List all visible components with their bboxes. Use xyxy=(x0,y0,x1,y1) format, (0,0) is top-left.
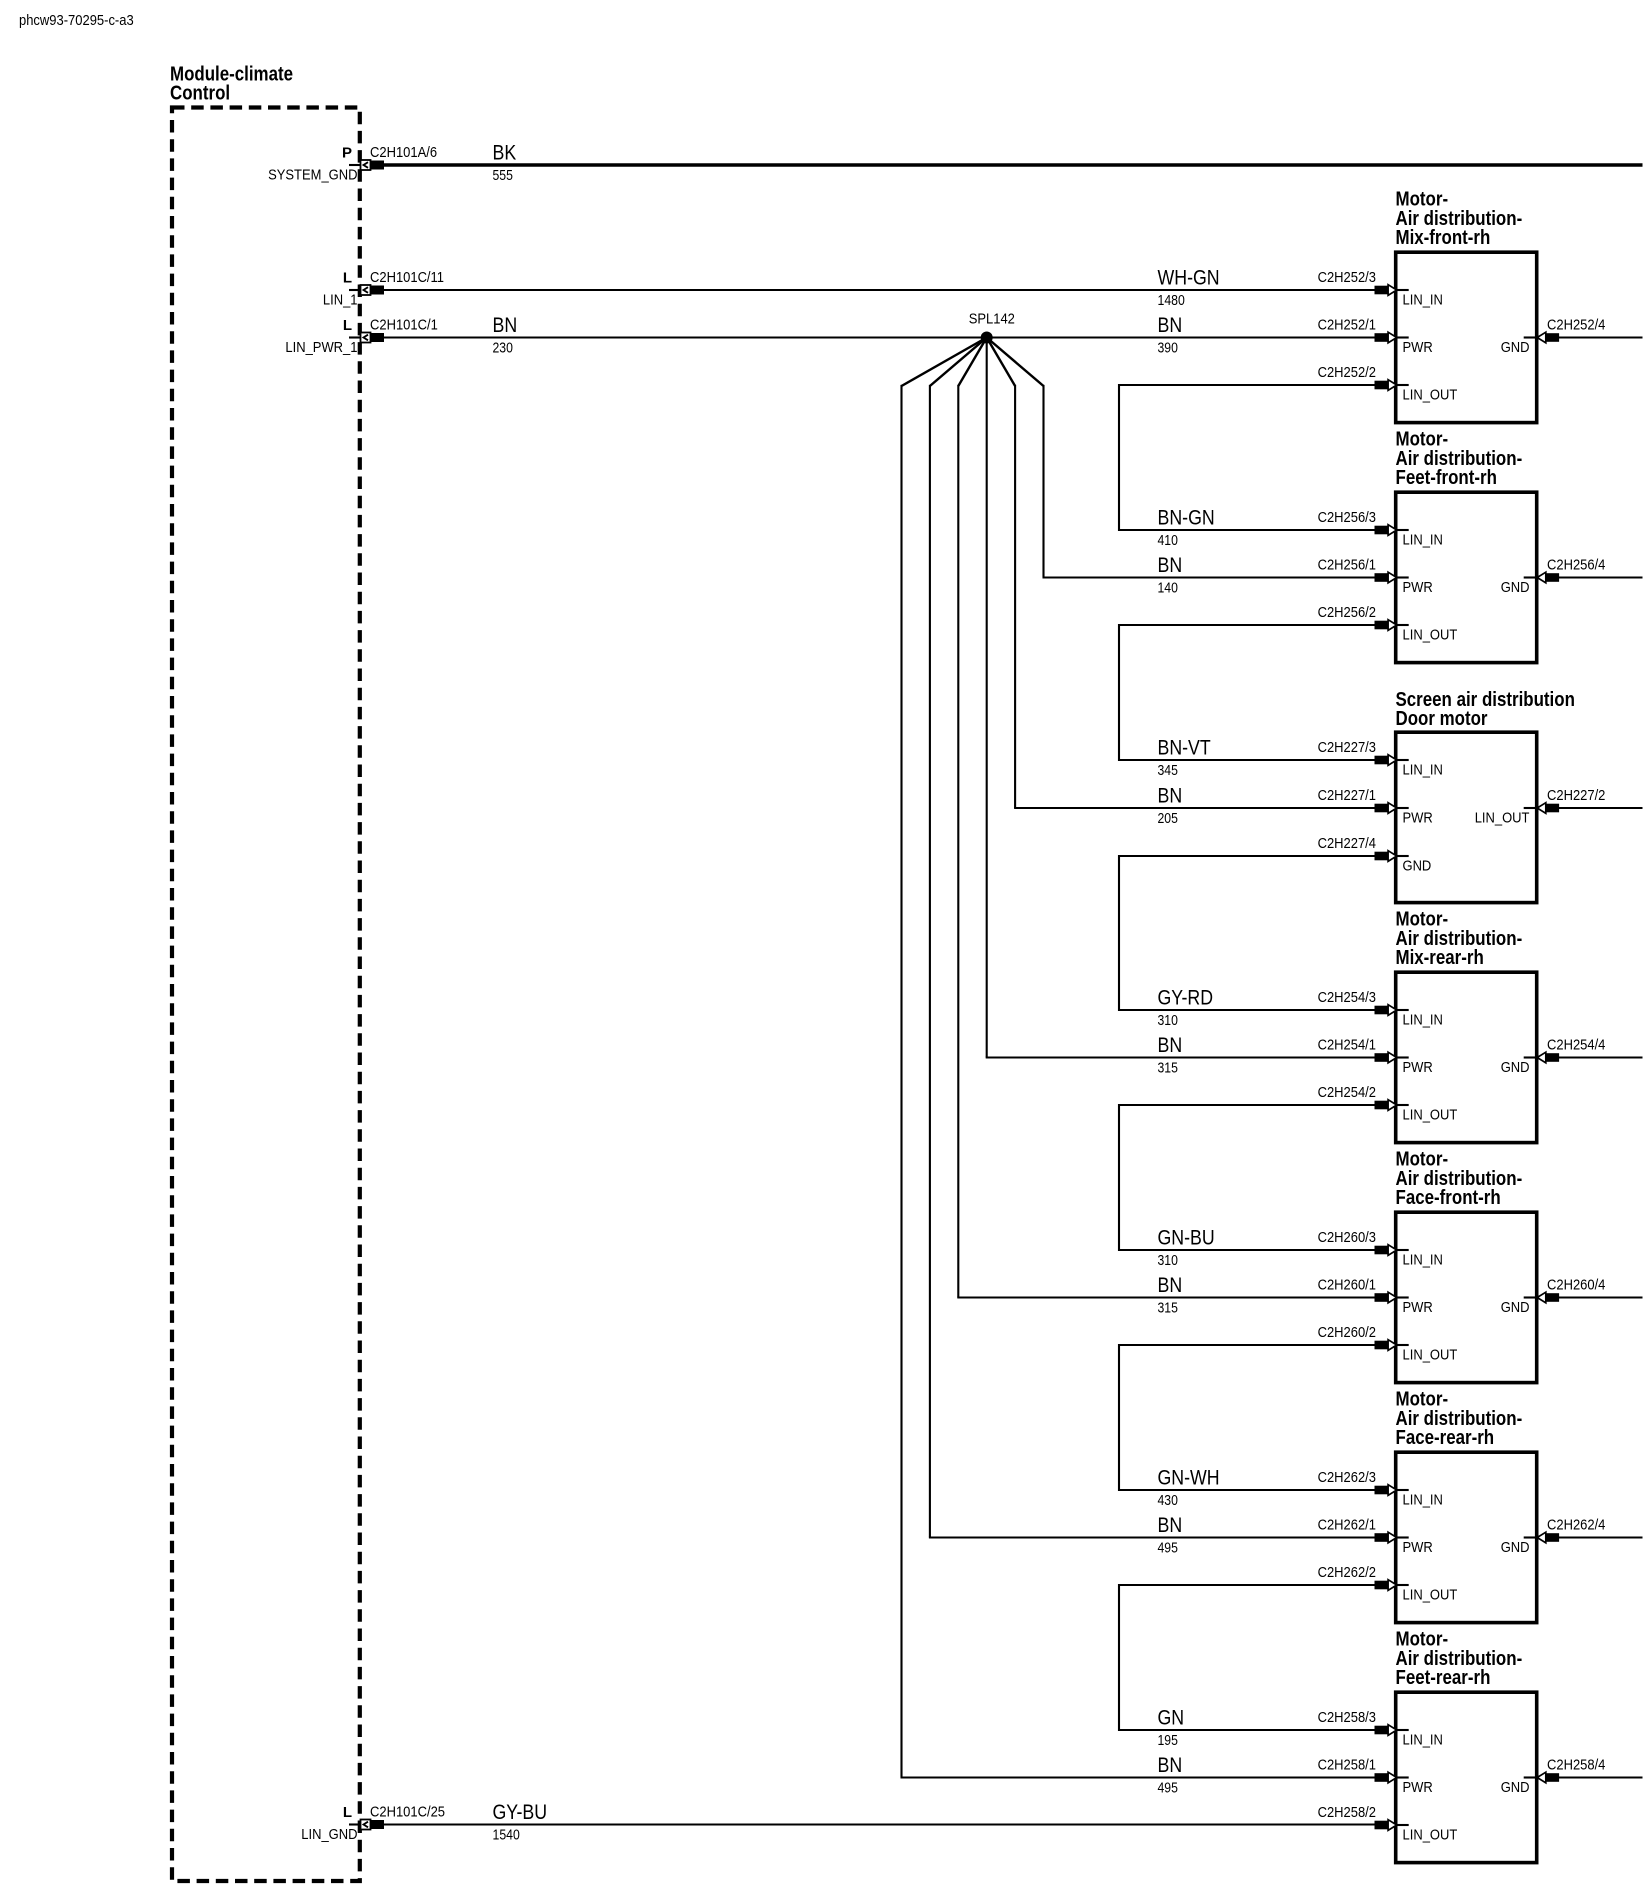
wire BN branch from splice SPL142 to motor M3 PWR xyxy=(987,338,1375,809)
svg-text:GN-WH: GN-WH xyxy=(1158,1467,1220,1490)
svg-text:BN: BN xyxy=(1158,1754,1183,1777)
svg-text:GND: GND xyxy=(1501,1779,1530,1796)
svg-text:L: L xyxy=(343,269,352,286)
svg-text:315: 315 xyxy=(1158,1061,1178,1077)
svg-text:1480: 1480 xyxy=(1158,293,1185,309)
svg-text:C2H256/2: C2H256/2 xyxy=(1318,604,1376,621)
motor M4 title xyxy=(1396,909,1523,969)
svg-text:C2H256/3: C2H256/3 xyxy=(1318,509,1376,526)
svg-text:Feet-rear-rh: Feet-rear-rh xyxy=(1396,1667,1491,1689)
pin LIN_IN of motor M6, connector C2H262/3 xyxy=(1318,1469,1443,1508)
svg-text:495: 495 xyxy=(1158,1781,1178,1797)
wire BN branch from splice SPL142 to motor M7 PWR xyxy=(901,338,1375,1778)
svg-text:LIN_IN: LIN_IN xyxy=(1403,531,1443,548)
svg-text:C2H227/3: C2H227/3 xyxy=(1318,739,1376,756)
svg-text:345: 345 xyxy=(1158,763,1178,779)
wire from motor M3 GND to motor M4 LIN_IN xyxy=(1119,856,1375,1010)
svg-text:LIN_IN: LIN_IN xyxy=(1403,1491,1443,1508)
svg-text:C2H256/1: C2H256/1 xyxy=(1318,557,1376,574)
svg-text:GND: GND xyxy=(1501,1059,1530,1076)
pin L LIN_PWR_1 of module xyxy=(285,317,357,356)
svg-text:C2H260/1: C2H260/1 xyxy=(1318,1277,1376,1294)
wire label BN 140 (motor M2 PWR wire) xyxy=(1158,554,1183,596)
svg-text:C2H101A/6: C2H101A/6 xyxy=(370,144,437,161)
svg-text:Feet-front-rh: Feet-front-rh xyxy=(1396,467,1497,489)
svg-text:C2H262/1: C2H262/1 xyxy=(1318,1517,1376,1534)
motor M7 title xyxy=(1396,1629,1523,1689)
svg-text:C2H256/4: C2H256/4 xyxy=(1547,557,1605,574)
svg-text:C2H252/2: C2H252/2 xyxy=(1318,364,1376,381)
svg-text:Door motor: Door motor xyxy=(1396,708,1488,730)
sheet id label phcw93-70295-c-a3 xyxy=(19,12,134,29)
svg-text:LIN_PWR_1: LIN_PWR_1 xyxy=(285,339,357,356)
svg-text:BN: BN xyxy=(1158,314,1183,337)
wire from motor M5 GND off-page right xyxy=(1559,1296,1643,1298)
svg-text:LIN_OUT: LIN_OUT xyxy=(1403,386,1458,403)
motor M6 title xyxy=(1396,1389,1523,1449)
wire from motor M2 LIN_OUT to motor M3 LIN_IN xyxy=(1119,625,1375,760)
svg-text:GND: GND xyxy=(1501,579,1530,596)
svg-text:BK: BK xyxy=(493,142,517,165)
svg-text:C2H254/2: C2H254/2 xyxy=(1318,1084,1376,1101)
pin GND of motor M4, connector C2H254/4 xyxy=(1501,1037,1606,1076)
svg-text:Mix-rear-rh: Mix-rear-rh xyxy=(1396,947,1484,969)
svg-text:495: 495 xyxy=(1158,1541,1178,1557)
wire from motor M6 GND off-page right xyxy=(1559,1536,1643,1538)
svg-text:230: 230 xyxy=(493,341,513,357)
pin LIN_IN of motor M5, connector C2H260/3 xyxy=(1318,1229,1443,1268)
connector C2H101C/1 xyxy=(349,317,438,343)
pin LIN_IN of motor M1, connector C2H252/3 xyxy=(1318,269,1443,308)
svg-text:C2H101C/25: C2H101C/25 xyxy=(370,1804,445,1821)
svg-text:GND: GND xyxy=(1501,1539,1530,1556)
pin GND of motor M2, connector C2H256/4 xyxy=(1501,557,1606,596)
svg-text:C2H101C/11: C2H101C/11 xyxy=(370,269,444,286)
pin GND of motor M7, connector C2H258/4 xyxy=(1501,1757,1606,1796)
connector C2H101C/25 xyxy=(349,1804,445,1830)
wire from motor M1 LIN_OUT to motor M2 LIN_IN xyxy=(1119,385,1375,530)
svg-text:Face-front-rh: Face-front-rh xyxy=(1396,1187,1501,1209)
pin PWR of motor M1, connector C2H252/1 xyxy=(1318,317,1433,356)
pin LIN_OUT of motor M6, connector C2H262/2 xyxy=(1318,1564,1458,1603)
svg-text:C2H262/4: C2H262/4 xyxy=(1547,1517,1605,1534)
svg-text:P: P xyxy=(342,144,352,161)
pin L LIN_GND of module xyxy=(301,1804,357,1843)
pin LIN_IN of motor M7, connector C2H258/3 xyxy=(1318,1709,1443,1748)
svg-text:LIN_IN: LIN_IN xyxy=(1403,1011,1443,1028)
svg-text:C2H252/4: C2H252/4 xyxy=(1547,317,1605,334)
svg-text:LIN_IN: LIN_IN xyxy=(1403,1731,1443,1748)
svg-text:GY-RD: GY-RD xyxy=(1158,987,1214,1010)
svg-text:C2H258/1: C2H258/1 xyxy=(1318,1757,1376,1774)
splice SPL142 xyxy=(969,311,1015,344)
svg-text:L: L xyxy=(343,1804,352,1821)
svg-text:GND: GND xyxy=(1403,857,1432,874)
pin PWR of motor M3, connector C2H227/1 xyxy=(1318,787,1433,826)
pin LIN_IN of motor M2, connector C2H256/3 xyxy=(1318,509,1443,548)
svg-text:C2H260/2: C2H260/2 xyxy=(1318,1324,1376,1341)
svg-text:WH-GN: WH-GN xyxy=(1158,267,1220,290)
pin GND of motor M3, connector C2H227/4 xyxy=(1318,835,1432,874)
svg-text:LIN_IN: LIN_IN xyxy=(1403,761,1443,778)
wire from motor M3 LIN_OUT off-page right xyxy=(1559,807,1643,809)
pin LIN_IN of motor M3, connector C2H227/3 xyxy=(1318,739,1443,778)
wire WH-GN 1480 (LIN_1 to motor M1 LIN_IN) xyxy=(384,267,1375,309)
wire label BN 205 (motor M3 PWR wire) xyxy=(1158,785,1183,827)
svg-text:BN: BN xyxy=(1158,1274,1183,1297)
pin GND of motor M5, connector C2H260/4 xyxy=(1501,1277,1606,1316)
wire BN branch from splice SPL142 to motor M5 PWR xyxy=(957,338,1374,1298)
motor M7 Motor- Air distribution- Feet-rear-rh: box xyxy=(1396,1692,1537,1862)
svg-text:C2H254/4: C2H254/4 xyxy=(1547,1037,1605,1054)
wire from motor M6 LIN_OUT to motor M7 LIN_IN xyxy=(1119,1585,1375,1730)
svg-text:BN: BN xyxy=(493,314,518,337)
svg-text:C2H252/1: C2H252/1 xyxy=(1318,317,1376,334)
svg-text:LIN_OUT: LIN_OUT xyxy=(1403,626,1458,643)
svg-text:410: 410 xyxy=(1158,533,1178,549)
svg-text:GND: GND xyxy=(1501,1299,1530,1316)
pin LIN_OUT of motor M3, connector C2H227/2 xyxy=(1475,787,1606,826)
svg-text:C2H227/2: C2H227/2 xyxy=(1547,787,1605,804)
wire label BN 315 (motor M5 PWR wire) xyxy=(1158,1274,1183,1316)
pin PWR of motor M7, connector C2H258/1 xyxy=(1318,1757,1433,1796)
svg-text:C2H258/4: C2H258/4 xyxy=(1547,1757,1605,1774)
svg-text:205: 205 xyxy=(1158,811,1178,827)
wire label BN-VT 345 (motor M3 LIN_IN wire) xyxy=(1158,737,1211,779)
svg-text:C2H254/3: C2H254/3 xyxy=(1318,989,1376,1006)
svg-text:BN-VT: BN-VT xyxy=(1158,737,1211,760)
wire BN branch from splice SPL142 to motor M6 PWR xyxy=(929,338,1375,1538)
pin PWR of motor M5, connector C2H260/1 xyxy=(1318,1277,1433,1316)
motor M3 Screen air distribution Door motor: box xyxy=(1396,732,1537,902)
pin L LIN_1 of module xyxy=(323,269,358,308)
wire label GN 195 (motor M7 LIN_IN wire) xyxy=(1158,1707,1185,1749)
svg-text:GN: GN xyxy=(1158,1707,1185,1730)
wire GY-BU 1540 (LIN_GND to motor M7 LIN_OUT) xyxy=(384,1801,1375,1843)
svg-text:C2H101C/1: C2H101C/1 xyxy=(370,317,438,334)
svg-text:PWR: PWR xyxy=(1403,1779,1433,1796)
motor M4 Motor- Air distribution- Mix-rear-rh: box xyxy=(1396,972,1537,1142)
pin LIN_OUT of motor M5, connector C2H260/2 xyxy=(1318,1324,1458,1363)
svg-text:310: 310 xyxy=(1158,1253,1178,1269)
svg-text:430: 430 xyxy=(1158,1493,1178,1509)
svg-text:C2H254/1: C2H254/1 xyxy=(1318,1037,1376,1054)
pin P SYSTEM_GND of module xyxy=(268,144,358,183)
wire from motor M4 LIN_OUT to motor M5 LIN_IN xyxy=(1119,1105,1375,1250)
pin LIN_OUT of motor M1, connector C2H252/2 xyxy=(1318,364,1458,403)
svg-text:LIN_OUT: LIN_OUT xyxy=(1403,1346,1458,1363)
svg-text:315: 315 xyxy=(1158,1301,1178,1317)
module U1 Module-climate Control title xyxy=(170,63,293,104)
svg-text:PWR: PWR xyxy=(1403,339,1433,356)
svg-text:195: 195 xyxy=(1158,1733,1178,1749)
wire BN branch from splice SPL142 to motor M2 PWR xyxy=(987,338,1375,578)
svg-text:GY-BU: GY-BU xyxy=(493,1801,548,1824)
svg-text:GN-BU: GN-BU xyxy=(1158,1227,1215,1250)
svg-text:Face-rear-rh: Face-rear-rh xyxy=(1396,1427,1495,1449)
svg-text:Control: Control xyxy=(170,83,230,105)
svg-text:LIN_OUT: LIN_OUT xyxy=(1403,1106,1458,1123)
pin GND of motor M1, connector C2H252/4 xyxy=(1501,317,1606,356)
wire label BN-GN 410 (motor M2 LIN_IN wire) xyxy=(1158,507,1215,549)
svg-text:C2H262/3: C2H262/3 xyxy=(1318,1469,1376,1486)
connector C2H101C/11 xyxy=(349,269,444,295)
svg-text:140: 140 xyxy=(1158,581,1178,597)
motor M6 Motor- Air distribution- Face-rear-rh: box xyxy=(1396,1452,1537,1622)
svg-text:LIN_1: LIN_1 xyxy=(323,292,358,309)
svg-text:PWR: PWR xyxy=(1403,1059,1433,1076)
svg-text:C2H262/2: C2H262/2 xyxy=(1318,1564,1376,1581)
svg-text:LIN_GND: LIN_GND xyxy=(301,1826,357,1843)
svg-text:GND: GND xyxy=(1501,339,1530,356)
wire BN branch from splice SPL142 to motor M4 PWR xyxy=(986,338,1375,1058)
wire label BN 495 (motor M7 PWR wire) xyxy=(1158,1754,1183,1796)
pin PWR of motor M2, connector C2H256/1 xyxy=(1318,557,1433,596)
svg-text:LIN_OUT: LIN_OUT xyxy=(1475,809,1530,826)
svg-text:BN: BN xyxy=(1158,1514,1183,1537)
svg-text:PWR: PWR xyxy=(1403,579,1433,596)
wire BK 555 (ground, off-page right) xyxy=(384,142,1643,184)
wire from motor M7 GND off-page right xyxy=(1559,1776,1643,1778)
wire label BN 315 (motor M4 PWR wire) xyxy=(1158,1034,1183,1076)
svg-text:1540: 1540 xyxy=(493,1828,520,1844)
svg-text:390: 390 xyxy=(1158,341,1178,357)
motor M5 title xyxy=(1396,1149,1523,1209)
wire BN 390 (splice SPL142 to motor M1 PWR) xyxy=(987,314,1375,356)
svg-text:BN: BN xyxy=(1158,554,1183,577)
svg-text:C2H260/3: C2H260/3 xyxy=(1318,1229,1376,1246)
pin LIN_OUT of motor M2, connector C2H256/2 xyxy=(1318,604,1458,643)
wire from motor M2 GND off-page right xyxy=(1559,576,1643,578)
motor M5 Motor- Air distribution- Face-front-rh: box xyxy=(1396,1212,1537,1382)
svg-text:PWR: PWR xyxy=(1403,809,1433,826)
svg-text:LIN_IN: LIN_IN xyxy=(1403,1251,1443,1268)
pin LIN_OUT of motor M4, connector C2H254/2 xyxy=(1318,1084,1458,1123)
svg-text:BN-GN: BN-GN xyxy=(1158,507,1215,530)
svg-text:Mix-front-rh: Mix-front-rh xyxy=(1396,227,1491,249)
pin PWR of motor M4, connector C2H254/1 xyxy=(1318,1037,1433,1076)
connector C2H101A/6 xyxy=(349,144,437,170)
module U1 dashed box xyxy=(172,108,360,1882)
svg-text:LIN_OUT: LIN_OUT xyxy=(1403,1826,1458,1843)
svg-text:phcw93-70295-c-a3: phcw93-70295-c-a3 xyxy=(19,12,134,29)
pin GND of motor M6, connector C2H262/4 xyxy=(1501,1517,1606,1556)
svg-text:L: L xyxy=(343,317,352,334)
svg-text:BN: BN xyxy=(1158,1034,1183,1057)
svg-text:C2H258/2: C2H258/2 xyxy=(1318,1804,1376,1821)
svg-text:C2H260/4: C2H260/4 xyxy=(1547,1277,1605,1294)
motor M2 title xyxy=(1396,429,1523,489)
svg-text:310: 310 xyxy=(1158,1013,1178,1029)
wire label GN-WH 430 (motor M6 LIN_IN wire) xyxy=(1158,1467,1220,1509)
svg-text:LIN_IN: LIN_IN xyxy=(1403,291,1443,308)
pin LIN_IN of motor M4, connector C2H254/3 xyxy=(1318,989,1443,1028)
svg-text:555: 555 xyxy=(493,168,513,184)
svg-text:BN: BN xyxy=(1158,785,1183,808)
wire from motor M4 GND off-page right xyxy=(1559,1056,1643,1058)
svg-text:C2H252/3: C2H252/3 xyxy=(1318,269,1376,286)
svg-text:PWR: PWR xyxy=(1403,1299,1433,1316)
motor M1 title xyxy=(1396,189,1523,249)
svg-text:C2H227/1: C2H227/1 xyxy=(1318,787,1376,804)
svg-text:PWR: PWR xyxy=(1403,1539,1433,1556)
svg-text:SPL142: SPL142 xyxy=(969,311,1015,328)
svg-text:C2H258/3: C2H258/3 xyxy=(1318,1709,1376,1726)
motor M1 Motor- Air distribution- Mix-front-rh: box xyxy=(1396,252,1537,422)
wire label GN-BU 310 (motor M5 LIN_IN wire) xyxy=(1158,1227,1215,1269)
pin PWR of motor M6, connector C2H262/1 xyxy=(1318,1517,1433,1556)
svg-text:SYSTEM_GND: SYSTEM_GND xyxy=(268,167,358,184)
wire BN 230 (LIN_PWR_1 to splice SPL142) xyxy=(384,314,987,356)
svg-text:LIN_OUT: LIN_OUT xyxy=(1403,1586,1458,1603)
wire from motor M1 GND off-page right xyxy=(1559,336,1643,338)
wire from motor M5 LIN_OUT to motor M6 LIN_IN xyxy=(1119,1345,1375,1490)
motor M2 Motor- Air distribution- Feet-front-rh: box xyxy=(1396,492,1537,662)
wire label GY-RD 310 (motor M4 LIN_IN wire) xyxy=(1158,987,1214,1029)
motor M3 title xyxy=(1396,689,1575,730)
wire label BN 495 (motor M6 PWR wire) xyxy=(1158,1514,1183,1556)
pin LIN_OUT of motor M7, connector C2H258/2 xyxy=(1318,1804,1458,1843)
svg-text:C2H227/4: C2H227/4 xyxy=(1318,835,1376,852)
